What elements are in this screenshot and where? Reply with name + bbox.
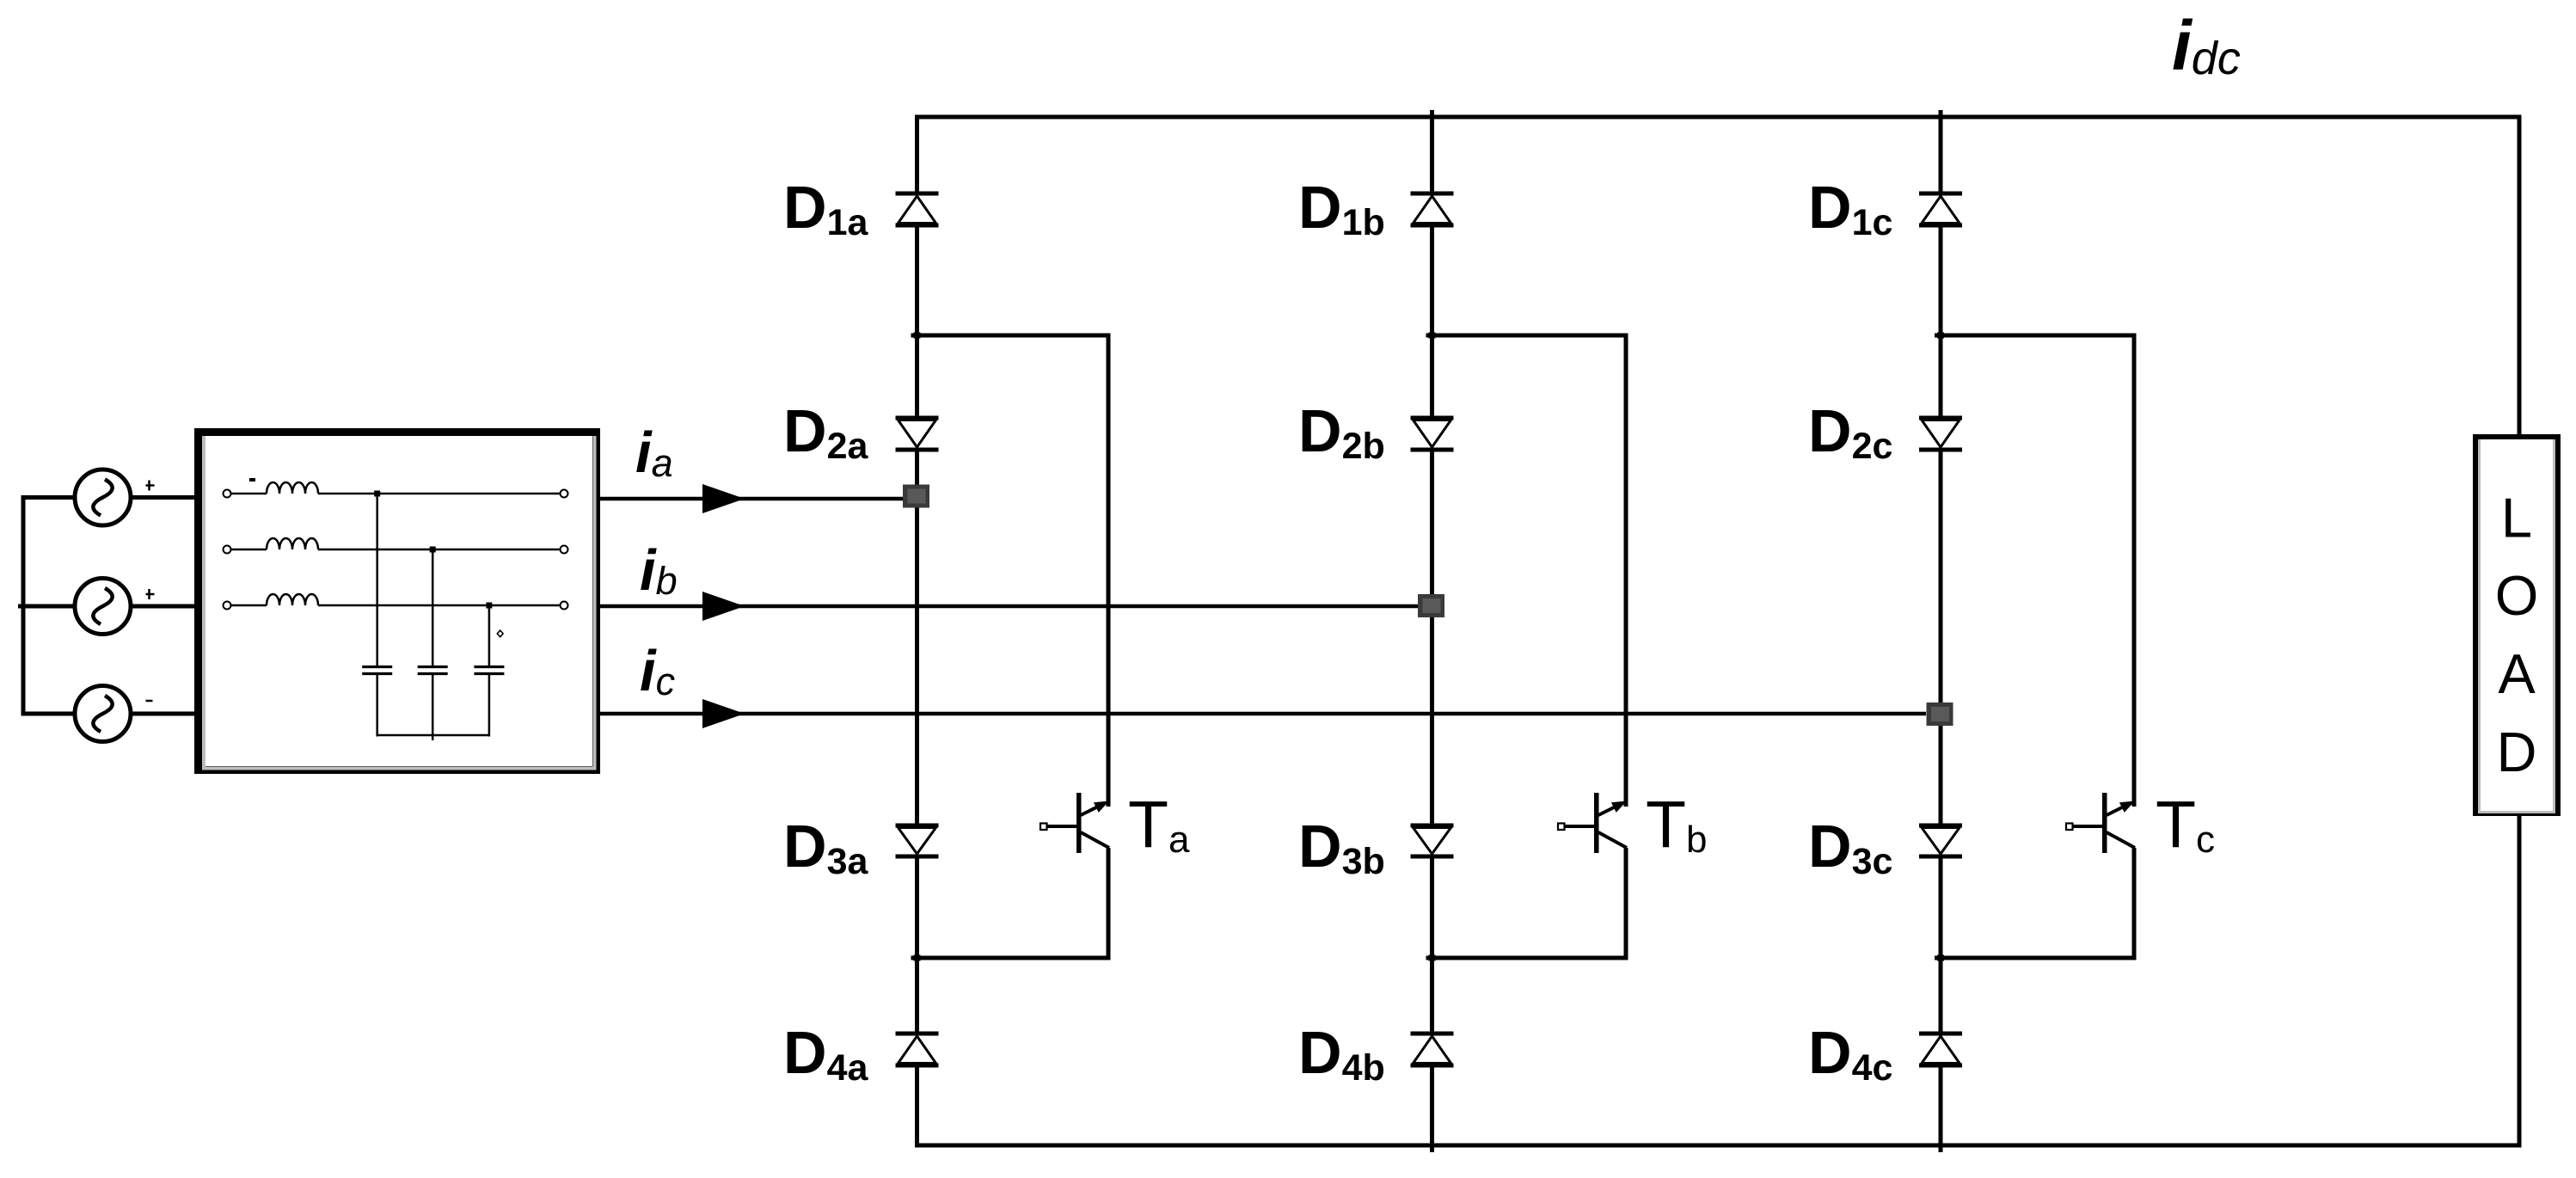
wire i_b phase line with arrow (597, 592, 1420, 621)
diamond marker in filter (497, 630, 503, 637)
wire leg a upper bypass (junction to Ta collector) (911, 333, 1111, 807)
label D3b (1298, 813, 1385, 882)
wire leg b upper bypass (junction to Tb collector) (1426, 333, 1628, 807)
label i_dc (2172, 7, 2241, 85)
node a (phase connection) (903, 485, 929, 508)
capacitor C2 (418, 547, 448, 737)
input filter block U1 (LC filter) (199, 433, 597, 770)
label D2b (1298, 397, 1385, 467)
label D4a (783, 1019, 868, 1089)
diode D4b (1411, 1034, 1454, 1065)
label Ta (1128, 788, 1190, 862)
wire LOAD bottom lead (2518, 816, 2522, 1148)
label D3c (1808, 813, 1892, 882)
label D2a (783, 397, 868, 467)
wire leg a lower bypass (Ta emitter to junction) (911, 848, 1111, 961)
wire bottom dc rail (915, 1144, 2522, 1148)
ac source V1 (75, 469, 155, 525)
wire leg c vertical (1939, 110, 1943, 1152)
capacitor C1 (362, 491, 392, 737)
wire left bus (18, 495, 76, 716)
diode D4a (896, 1034, 939, 1065)
diode D1a (896, 193, 939, 225)
label D2c (1808, 397, 1892, 467)
wire i_a phase line with arrow (597, 484, 903, 513)
wire leg b vertical (1430, 110, 1434, 1152)
label i_b (640, 538, 678, 603)
svg-text:O: O (2495, 564, 2539, 627)
diode D3b (1411, 825, 1454, 856)
label D3a (783, 813, 868, 882)
wire leg a vertical (915, 117, 919, 1145)
diode D4c (1919, 1034, 1962, 1065)
load block (LOAD) (2475, 437, 2558, 813)
node c (phase connection) (1927, 703, 1953, 726)
diode D3a (896, 825, 939, 856)
polarity dot marker on L1 (249, 478, 255, 482)
transistor Ta (1040, 793, 1109, 853)
inductor L2 (267, 538, 318, 549)
diode D1b (1411, 193, 1454, 225)
transistor Tb (1558, 793, 1627, 853)
wire V2 to filter input (130, 604, 198, 609)
wire leg c lower bypass (Tc emitter to junction) (1935, 848, 2137, 961)
wire leg b lower bypass (Tb emitter to junction) (1426, 848, 1628, 961)
wire right vertical to LOAD top (2518, 115, 2522, 435)
label D4c (1808, 1019, 1892, 1089)
diode D1c (1919, 193, 1962, 225)
wire i_c phase line with arrow (597, 699, 1926, 728)
ac source V2 (75, 579, 155, 635)
diode D2c (1919, 418, 1962, 450)
filter phase wire 2 with ports (224, 546, 568, 554)
filter capacitor common bus wire (377, 735, 491, 740)
svg-text:L: L (2501, 487, 2532, 549)
capacitor C3 (474, 603, 504, 737)
wire leg c upper bypass (junction to Tc collector) (1935, 333, 2137, 807)
inductor L1 (267, 482, 318, 494)
label i_a (635, 420, 673, 485)
svg-text:D: D (2497, 721, 2537, 783)
transistor Tc (2066, 793, 2135, 853)
svg-text:A: A (2498, 642, 2536, 705)
wire V1 to filter input (130, 495, 198, 500)
label i_c (640, 639, 675, 703)
diode D2b (1411, 418, 1454, 450)
ac source V3 (75, 686, 153, 742)
node b (phase connection) (1418, 594, 1444, 617)
diode D3c (1919, 825, 1962, 856)
label D1a (783, 174, 868, 243)
label D4b (1298, 1019, 1385, 1089)
wire V3 to filter input (130, 712, 198, 716)
label Tc (2156, 788, 2215, 862)
wire top dc rail (915, 115, 2522, 120)
label D1b (1298, 174, 1385, 243)
filter phase wire 1 with ports (224, 490, 568, 498)
inductor L3 (267, 594, 318, 605)
label D1c (1808, 174, 1892, 243)
filter phase wire 3 with ports (224, 602, 568, 610)
diode D2a (896, 418, 939, 450)
label Tb (1646, 788, 1708, 862)
